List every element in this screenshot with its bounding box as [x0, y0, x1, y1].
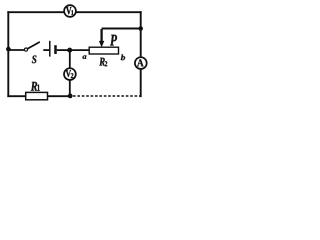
wire bottom (solid part) [8, 95, 70, 97]
wire left [7, 12, 9, 96]
voltmeter V2 [64, 68, 76, 80]
wire wiper to right wire [102, 28, 141, 30]
wire battery to node [57, 49, 70, 51]
node junction on bottom wire [68, 94, 73, 99]
node junction after battery [67, 48, 72, 53]
wire node to rheostat terminal a [70, 49, 90, 51]
label P [110, 35, 117, 46]
ammeter A [135, 57, 147, 69]
node junction on left wire [6, 47, 11, 52]
node junction on right wire [138, 26, 143, 31]
wire voltmeter V2 to bottom wire [69, 80, 71, 96]
label b [121, 54, 125, 60]
switch S blade [28, 42, 40, 48]
wire right lower [140, 69, 142, 96]
wire switch to battery [43, 49, 49, 51]
battery positive plate (long) [49, 41, 51, 57]
rheostat wiper arrowhead P [99, 41, 104, 48]
label a [82, 55, 86, 58]
wire right upper [140, 12, 142, 57]
wire top [8, 11, 140, 13]
label R2 [99, 58, 107, 67]
battery negative plate (short) [54, 45, 57, 54]
wire node down to voltmeter V2 [69, 50, 71, 68]
switch S contact circle [24, 48, 27, 51]
voltmeter V1 [64, 5, 76, 17]
rheostat wiper stem [100, 29, 102, 42]
wire bottom (dashed part) [73, 95, 141, 97]
switch label S [32, 55, 37, 63]
label R1 [31, 82, 40, 91]
rheostat R2 body [89, 47, 118, 54]
wire left wire to switch [8, 49, 24, 51]
resistor R1 body [26, 92, 48, 99]
